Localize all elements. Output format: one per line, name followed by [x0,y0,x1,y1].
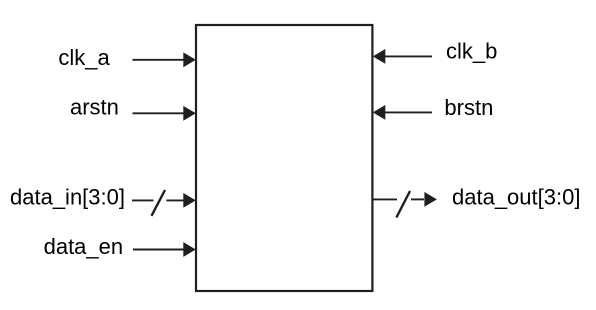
svg-text:clk_b: clk_b [446,39,497,64]
svg-text:arstn: arstn [70,94,119,119]
wire data_in segment 2 [166,199,184,201]
port label data_en [44,234,124,259]
arrowhead clk_b input [373,49,386,64]
svg-text:clk_a: clk_a [58,45,110,70]
svg-text:data_out[3:0]: data_out[3:0] [452,184,580,209]
wire arstn [133,112,185,114]
wire data_in segment 1 [132,199,154,201]
module block U1 [196,25,372,291]
svg-text:data_en: data_en [44,234,124,259]
arrowhead data_out output [424,192,437,207]
bus-width slash data_out [396,191,410,218]
wire clk_a [133,59,185,61]
port label data_in[3:0] [10,184,125,209]
wire data_out segment 1 [372,198,397,200]
arrowhead arstn input [183,106,196,121]
port label arstn [70,94,119,119]
arrowhead data_en input [183,242,196,257]
arrowhead clk_a input [183,52,196,67]
svg-text:brstn: brstn [444,95,493,120]
wire brstn [385,111,432,113]
wire data_en [133,249,184,251]
wire clk_b [385,55,432,57]
port label data_out[3:0] [452,184,580,209]
port label clk_b [446,39,497,64]
arrowhead data_in input [183,193,196,208]
arrowhead brstn input [373,105,386,120]
wire data_out segment 2 [411,198,424,200]
port label clk_a [58,45,110,70]
bus-width slash data_in [152,190,166,216]
port label brstn [444,95,493,120]
svg-text:data_in[3:0]: data_in[3:0] [10,184,125,209]
